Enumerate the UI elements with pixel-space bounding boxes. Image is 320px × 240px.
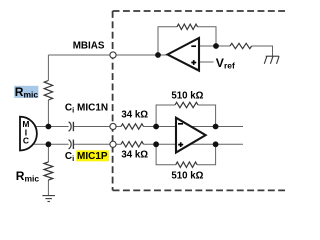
svg-text:Ci MIC1P: Ci MIC1P bbox=[65, 151, 108, 163]
svg-text:510 kΩ: 510 kΩ bbox=[171, 91, 203, 102]
svg-text:MBIAS: MBIAS bbox=[73, 41, 105, 52]
svg-text:34 kΩ: 34 kΩ bbox=[121, 110, 148, 121]
svg-text:510 kΩ: 510 kΩ bbox=[171, 171, 203, 182]
svg-text:Ci MIC1N: Ci MIC1N bbox=[65, 103, 108, 115]
svg-text:C: C bbox=[23, 136, 29, 146]
svg-text:34 kΩ: 34 kΩ bbox=[121, 150, 148, 161]
